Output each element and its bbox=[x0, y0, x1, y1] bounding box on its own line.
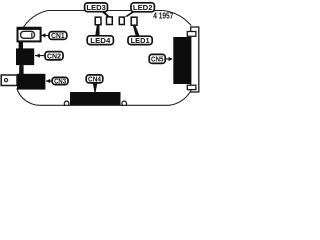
svg-text:4 1957: 4 1957 bbox=[153, 12, 174, 21]
svg-text:LED2: LED2 bbox=[133, 3, 153, 12]
svg-text:LED3: LED3 bbox=[86, 3, 106, 12]
svg-text:CN5: CN5 bbox=[151, 55, 164, 64]
svg-text:CN4: CN4 bbox=[88, 75, 101, 84]
svg-text:LED4: LED4 bbox=[90, 36, 110, 45]
svg-text:LED1: LED1 bbox=[131, 36, 150, 45]
svg-text:CN3: CN3 bbox=[54, 77, 66, 86]
svg-text:CN2: CN2 bbox=[47, 51, 61, 60]
svg-text:CN1: CN1 bbox=[51, 31, 65, 40]
